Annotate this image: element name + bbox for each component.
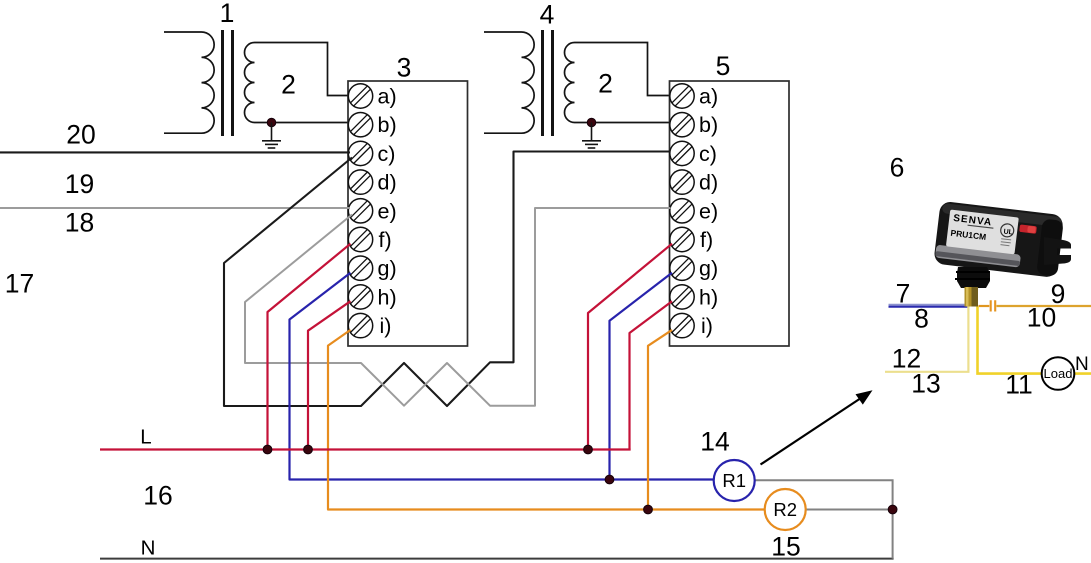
transformer T2 (484, 30, 671, 136)
svg-text:15: 15 (771, 532, 800, 562)
wire T2 secondary top to terminal a (575, 43, 671, 96)
svg-text:Load: Load (1044, 366, 1073, 381)
wire crimson block5 h to L end (630, 301, 673, 450)
svg-text:i): i) (701, 314, 713, 338)
svg-text:16: 16 (143, 481, 172, 511)
wire L line (100, 448, 631, 450)
junction dot T1 ground (267, 118, 276, 127)
svg-text:3: 3 (397, 53, 412, 83)
svg-text:e): e) (378, 199, 397, 223)
block 3 terminal c (348, 141, 372, 165)
sensor red indicator (1019, 224, 1037, 233)
sensor label (946, 209, 1019, 254)
svg-text:4: 4 (540, 0, 555, 30)
T1 secondary winding (245, 43, 255, 123)
junction dot gray riser (888, 505, 897, 514)
block 3 terminal i (348, 313, 372, 337)
T2 primary winding (484, 32, 534, 133)
svg-text:f): f) (700, 228, 713, 252)
block 3 pin labels (378, 85, 397, 339)
wire crimson block3 h to L (308, 301, 351, 449)
wire gray R1 to N (755, 480, 893, 558)
block 5 terminal e (670, 199, 694, 223)
relay R1 (714, 460, 755, 501)
block 3 terminal h (348, 285, 372, 309)
svg-text:R2: R2 (773, 499, 797, 520)
block 5 terminal i (670, 313, 694, 337)
svg-text:1: 1 (220, 0, 235, 28)
junction dot orange bus (644, 505, 653, 514)
svg-text:2: 2 (281, 70, 296, 100)
junction dot L f-left (263, 445, 272, 454)
svg-text:5: 5 (716, 51, 731, 81)
svg-text:e): e) (699, 199, 718, 223)
ground symbol left (262, 123, 281, 149)
svg-text:11: 11 (1005, 370, 1033, 400)
wire black twisted pair (block3 c to block5 c) (224, 152, 671, 407)
wire blue block5 g to blue bus (610, 273, 673, 480)
svg-text:b): b) (699, 113, 718, 137)
svg-text:d): d) (699, 171, 718, 195)
wire T1 secondary top to terminal a (255, 43, 350, 96)
T2 core (541, 30, 544, 136)
relay R2 (765, 489, 806, 530)
block 3 terminal a (348, 84, 372, 108)
svg-text:14: 14 (700, 427, 729, 457)
sensor bottom band (935, 245, 1021, 268)
svg-text:f): f) (379, 228, 392, 252)
T2 secondary winding (565, 43, 575, 123)
block 3 terminal f (348, 227, 372, 251)
sensor PBU1CM photo (933, 201, 1064, 278)
svg-text:6: 6 (890, 153, 905, 183)
terminal block 3 outline (348, 81, 468, 346)
block 3 terminal g (348, 256, 372, 280)
block 5 terminal d (670, 170, 694, 194)
wire T2 secondary bottom to terminal b (575, 122, 671, 124)
wire T1 secondary bottom to terminal b (255, 122, 350, 124)
arrow to sensor (761, 396, 865, 465)
ground symbol right (582, 123, 601, 149)
svg-text:7: 7 (896, 279, 911, 309)
svg-text:h): h) (699, 285, 718, 309)
svg-text:c): c) (378, 142, 396, 166)
block 3 terminal e (348, 199, 372, 223)
svg-text:L: L (140, 426, 151, 449)
wire gray R2 to N riser (806, 509, 893, 511)
svg-text:h): h) (378, 285, 397, 309)
wire 12-13 pale yellow (885, 307, 968, 372)
T1 primary winding (164, 32, 214, 133)
block 5 terminal h (670, 285, 694, 309)
svg-text:2: 2 (598, 69, 613, 99)
wire 18 (gray feed) (0, 207, 350, 209)
block 5 terminal g (670, 256, 694, 280)
junction dot T2 ground (587, 118, 596, 127)
svg-text:18: 18 (65, 208, 94, 238)
svg-text:17: 17 (5, 269, 34, 299)
wire orange block5 i to orange bus (648, 330, 672, 510)
wire N line (100, 558, 894, 560)
svg-text:R1: R1 (722, 470, 746, 491)
wire 11 yellow to Load (978, 307, 1042, 374)
svg-text:20: 20 (66, 120, 95, 150)
sensor body (933, 201, 1064, 278)
block 5 terminal c (670, 141, 694, 165)
wire 9-10 gold line with break (979, 305, 990, 307)
svg-text:g): g) (378, 257, 397, 281)
block 5 pin labels (699, 85, 718, 339)
wire 20 (hot feed, black) (0, 151, 350, 153)
wire 7-8 blue pair to sensor (889, 304, 969, 306)
transformer T1 (164, 30, 349, 136)
svg-text:a): a) (699, 85, 718, 109)
wire gray twisted pair (block3 e to block5 e) (245, 208, 671, 406)
svg-text:N: N (1075, 354, 1089, 375)
junction dot L h-left (304, 445, 313, 454)
junction dot L f-right (584, 445, 593, 454)
svg-text:19: 19 (65, 169, 94, 199)
sensor UL mark (1000, 223, 1014, 237)
block 5 terminal a (670, 84, 694, 108)
svg-text:N: N (141, 537, 156, 560)
svg-text:d): d) (378, 171, 397, 195)
svg-text:UL: UL (1003, 228, 1014, 236)
Load circle (1042, 357, 1075, 390)
svg-text:g): g) (699, 257, 718, 281)
svg-text:i): i) (380, 314, 392, 338)
capacitor-style break bars (991, 300, 996, 311)
sensor nut (957, 267, 990, 288)
svg-text:a): a) (378, 85, 397, 109)
sensor screw shank (965, 287, 979, 307)
junction dot blue bus (605, 475, 614, 484)
block 3 terminal b (348, 113, 372, 137)
wire blue block3 g to R1 (290, 273, 714, 480)
T1 core (221, 30, 224, 136)
svg-text:8: 8 (914, 304, 929, 334)
block 3 terminal d (348, 170, 372, 194)
sensor mounting fork (1044, 237, 1071, 265)
wire crimson block3 f to L (268, 244, 351, 450)
block 5 terminal b (670, 113, 694, 137)
svg-text:c): c) (699, 142, 717, 166)
terminal block 5 outline (670, 81, 790, 346)
svg-text:b): b) (378, 113, 397, 137)
block 5 terminal f (670, 227, 694, 251)
svg-text:10: 10 (1027, 303, 1056, 333)
svg-text:13: 13 (911, 369, 940, 399)
wire crimson block5 f to L (588, 244, 672, 450)
wire orange block3 i to R2 (328, 330, 765, 510)
